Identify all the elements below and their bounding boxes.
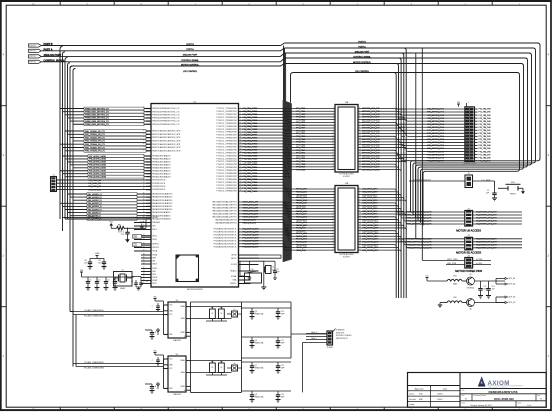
connector MOTOR SD ACCESS	[456, 235, 481, 254]
wires MOTOR SD ACCESS right	[473, 239, 522, 250]
svg-text:LCD_SEG3_DRV: LCD_SEG3_DRV	[362, 197, 378, 199]
svg-text:.1UF: .1UF	[84, 262, 87, 264]
svg-text:90: 90	[143, 182, 145, 184]
capacitors C13 C14 decoupling	[84, 252, 107, 269]
svg-text:PAD13_AN2: PAD13_AN2	[296, 216, 307, 219]
svg-text:MOTOR0_PH0_CTL: MOTOR0_PH0_CTL	[362, 108, 381, 110]
svg-text:LCD_SEG18_DRV: LCD_SEG18_DRV	[362, 239, 379, 241]
svg-text:PT5/IOC1_5/PWM2/KW2: PT5/IOC1_5/PWM2/KW2	[216, 185, 236, 187]
svg-text:20: 20	[332, 160, 334, 162]
capacitor C22	[276, 362, 285, 373]
svg-text:MOTOR2_PH0_CTL: MOTOR2_PH0_CTL	[362, 158, 381, 160]
IC U1 MC9S12 MCU body	[151, 101, 239, 291]
svg-text:11: 11	[359, 135, 361, 137]
wire CAN lattice rails	[191, 302, 328, 392]
wires CAN0 from MCU bus	[70, 305, 168, 334]
wire reset net to SW1	[473, 181, 499, 188]
svg-text:PT5_TIM2: PT5_TIM2	[296, 158, 305, 160]
svg-text:91: 91	[143, 146, 145, 148]
svg-text:C13: C13	[491, 286, 494, 288]
svg-text:LCD_SEG8_DRV: LCD_SEG8_DRV	[362, 211, 378, 213]
svg-text:M_GND: M_GND	[476, 263, 483, 265]
svg-text:23: 23	[143, 270, 145, 272]
svg-text:MOT_A1: MOT_A1	[509, 277, 516, 280]
svg-text:28: 28	[240, 187, 242, 189]
svg-text:PM2_TXCAN2_SPI_CTL: PM2_TXCAN2_SPI_CTL	[85, 136, 105, 139]
svg-text:PORT B: PORT B	[186, 44, 194, 46]
wires U1 right pin group 3	[214, 228, 291, 249]
svg-text:PT1/IOC1_1/PWM6/KW6: PT1/IOC1_1/PWM6/KW6	[216, 149, 236, 151]
svg-text:PB0/ADDR0/DATA0/IO: PB0/ADDR0/DATA0/IO	[152, 175, 171, 178]
svg-text:PS1/RXD1/SCI1: PS1/RXD1/SCI1	[152, 183, 165, 185]
svg-text:11: 11	[240, 137, 242, 139]
svg-text:10: 10	[240, 134, 242, 136]
bus flag ANALOG PORT	[29, 54, 62, 58]
svg-text:21: 21	[143, 263, 145, 265]
capacitor C20	[276, 308, 285, 319]
svg-text:90: 90	[143, 143, 145, 145]
svg-text:LCD_SEG20_DRV: LCD_SEG20_DRV	[362, 244, 379, 246]
svg-text:PM0_TXCAN0_SPI_CTL: PM0_TXCAN0_SPI_CTL	[85, 130, 105, 133]
svg-text:PA1_ADDR9_D: PA1_ADDR9_D	[88, 211, 101, 214]
svg-text:TO_MC33887_PH3_OUT: TO_MC33887_PH3_OUT	[476, 221, 497, 223]
svg-text:TO_MC33887_PH1_OUT: TO_MC33887_PH1_OUT	[476, 215, 497, 217]
svg-text:C12: C12	[483, 286, 486, 288]
svg-text:M_PWR: M_PWR	[476, 259, 483, 261]
svg-text:PAD14_AN14_ATD: PAD14_AN14_ATD	[243, 204, 259, 207]
svg-text:PT2/IOC1_2/PWM5/KW5: PT2/IOC1_2/PWM5/KW5	[216, 123, 236, 125]
svg-text:C3: C3	[107, 280, 109, 282]
svg-text:PAD15/AN15/KWAD15/ETRIG: PAD15/AN15/KWAD15/ETRIG	[212, 201, 237, 204]
svg-text:15: 15	[359, 227, 361, 229]
svg-text:DEMO9S12DWY256: DEMO9S12DWY256	[489, 390, 518, 394]
svg-text:PK1/XADR15/ECS/ROMCTL: PK1/XADR15/ECS/ROMCTL	[214, 231, 237, 234]
wires MOTOR U/I ACCESS left	[396, 210, 465, 226]
svg-text:PT5_TIM2: PT5_TIM2	[296, 136, 305, 138]
svg-text:22: 22	[332, 246, 334, 248]
capacitor C12	[478, 281, 487, 298]
svg-text:PT6/IOC1_6/PWM1/KW1: PT6/IOC1_6/PWM1/KW1	[216, 135, 236, 137]
wires connector left side	[283, 107, 335, 172]
svg-text:PT0_TIM7_PWM3: PT0_TIM7_PWM3	[243, 152, 258, 154]
svg-text:PB1_ADDR1_DATA1: PB1_ADDR1_DATA1	[89, 172, 106, 175]
svg-text:GND_PWR: GND_PWR	[447, 263, 457, 265]
svg-text:PA6_ADDR14_D: PA6_ADDR14_D	[88, 196, 102, 199]
wires J6 feeder from wrap	[396, 109, 405, 155]
svg-text:31: 31	[143, 172, 145, 174]
svg-text:13: 13	[359, 221, 361, 223]
connector J3A body	[335, 101, 358, 178]
transistor Q5	[462, 274, 474, 289]
svg-text:LCD_SEG0_DRV: LCD_SEG0_DRV	[362, 189, 378, 191]
svg-text:PORT IO: PORT IO	[29, 62, 36, 64]
svg-text:22: 22	[332, 165, 334, 167]
bus flag PORT B	[29, 43, 53, 47]
svg-text:XTAL: XTAL	[232, 279, 236, 282]
svg-text:PW7_MOTOR_CTL3: PW7_MOTOR_CTL3	[427, 130, 444, 132]
svg-text:1/30/07: 1/30/07	[437, 399, 443, 401]
svg-text:PWM0_MOTOR0_PH0_HI_CTL: PWM0_MOTOR0_PH0_HI_CTL	[406, 212, 432, 214]
svg-text:PB6/ADDR6/DATA6/IO: PB6/ADDR6/DATA6/IO	[152, 158, 171, 161]
svg-text:LCD_SEG12_DRV: LCD_SEG12_DRV	[362, 222, 379, 224]
svg-text:PA1/ADDR9/DATA9/IO: PA1/ADDR9/DATA9/IO	[152, 211, 171, 214]
svg-text:PT3/IOC1_3/PWM4/KW4: PT3/IOC1_3/PWM4/KW4	[216, 144, 236, 146]
svg-text:J6 MCU PORT: J6 MCU PORT	[463, 163, 476, 165]
svg-text:LCD_SEG2_DRV: LCD_SEG2_DRV	[362, 194, 378, 196]
svg-text:.1UF: .1UF	[486, 192, 489, 194]
svg-text:DOC-0508-000: DOC-0508-000	[494, 397, 514, 401]
svg-text:20: 20	[359, 160, 361, 162]
svg-text:J11: J11	[467, 235, 470, 237]
svg-text:PK2/XADR16/ECS/ROMCTL: PK2/XADR16/ECS/ROMCTL	[214, 234, 237, 237]
svg-text:27: 27	[143, 282, 145, 284]
svg-text:PB4_ADDR4_DATA4: PB4_ADDR4_DATA4	[89, 164, 106, 167]
svg-text:PT7_TIM_CH7: PT7_TIM_CH7	[479, 154, 491, 156]
wires MOTOR U/I ACCESS right	[473, 212, 522, 226]
svg-text:1 of 1: 1 of 1	[527, 405, 532, 407]
svg-text:MOTOR CONTROL: MOTOR CONTROL	[353, 62, 372, 64]
svg-text:LCD_SEG7_DRV: LCD_SEG7_DRV	[362, 208, 378, 210]
svg-text:PAD15_AN0: PAD15_AN0	[296, 232, 307, 235]
svg-text:20: 20	[359, 240, 361, 242]
svg-text:TO_MC33887_PH3_OUT: TO_MC33887_PH3_OUT	[476, 248, 497, 250]
svg-text:19: 19	[240, 160, 242, 162]
svg-text:FB1: FB1	[453, 276, 456, 278]
svg-text:PT1/IOC1_1/PWM6/KW6: PT1/IOC1_1/PWM6/KW6	[216, 126, 236, 128]
svg-text:PW6_MOTOR_CTL2: PW6_MOTOR_CTL2	[427, 151, 444, 153]
svg-text:21: 21	[332, 163, 334, 165]
svg-text:LCD_SEG1_DRV: LCD_SEG1_DRV	[362, 191, 378, 193]
svg-text:PW5_MOTOR_CTL1: PW5_MOTOR_CTL1	[427, 124, 444, 126]
svg-text:VREF: VREF	[181, 386, 185, 388]
svg-text:PAD9_AN6: PAD9_AN6	[296, 227, 306, 230]
svg-text:61: 61	[143, 120, 145, 122]
svg-text:PAD11_AN11_ATD: PAD11_AN11_ATD	[243, 212, 259, 215]
svg-text:17: 17	[332, 152, 334, 154]
transistor Q3	[250, 308, 264, 319]
svg-text:MOTOR3_PH1_CTL: MOTOR3_PH1_CTL	[362, 161, 381, 163]
svg-text:PS2/RXD2/SCI0: PS2/RXD2/SCI0	[152, 186, 165, 188]
svg-text:MOT_A2: MOT_A2	[509, 283, 516, 286]
svg-text:PWM3_MOTOR0_PH3_HI_CTL: PWM3_MOTOR0_PH3_HI_CTL	[406, 221, 432, 223]
svg-text:PAD8_AN7: PAD8_AN7	[296, 207, 306, 210]
svg-text:92: 92	[143, 149, 145, 151]
svg-text:MOTOR1_PH1_CTL: MOTOR1_PH1_CTL	[362, 111, 381, 113]
svg-text:TO_MC33887_PH0_OUT: TO_MC33887_PH0_OUT	[476, 212, 497, 214]
svg-text:PT2/IOC1_2/PWM5/KW5: PT2/IOC1_2/PWM5/KW5	[216, 146, 236, 148]
svg-text:PM4_TXCAN4_SPI_CTL: PM4_TXCAN4_SPI_CTL	[85, 143, 105, 146]
svg-text:MOTOR SD ACCESS: MOTOR SD ACCESS	[456, 251, 481, 255]
svg-text:PORT B: PORT B	[358, 41, 366, 43]
svg-text:PWM0_KWJ1_MOTOR1_CTL: PWM0_KWJ1_MOTOR1_CTL	[85, 111, 109, 113]
svg-text:CONTROL SIGNAL: CONTROL SIGNAL	[181, 59, 199, 62]
svg-text:PT1_TIM6: PT1_TIM6	[296, 169, 305, 171]
svg-text:PA7/ADDR15/DATA15/IO: PA7/ADDR15/DATA15/IO	[152, 193, 173, 196]
wire bus PORT A	[41, 45, 535, 214]
svg-text:PT0/IOC1_0/PWM7/KW7: PT0/IOC1_0/PWM7/KW7	[216, 152, 236, 154]
svg-text:RXCAN0_TRANSLATED: RXCAN0_TRANSLATED	[84, 315, 105, 318]
svg-text:VDDA: VDDA	[152, 250, 158, 253]
svg-text:PT4/IOC1_4/PWM3/KW3: PT4/IOC1_4/PWM3/KW3	[216, 188, 236, 190]
svg-text:89: 89	[143, 179, 145, 181]
svg-text:PAD14_AN1: PAD14_AN1	[296, 213, 307, 216]
svg-text:PT1_TIM6_PWM2: PT1_TIM6_PWM2	[243, 149, 258, 151]
connector J1	[51, 175, 57, 192]
power VDD rail bottom left	[80, 270, 134, 277]
svg-text:PT5/IOC1_5/PWM2/KW2: PT5/IOC1_5/PWM2/KW2	[216, 161, 236, 163]
resistor R11 box	[240, 261, 262, 283]
svg-text:PT0/IOC1_0/PWM7/KW7: PT0/IOC1_0/PWM7/KW7	[216, 176, 236, 178]
svg-text:VSSPLL: VSSPLL	[230, 283, 237, 285]
svg-text:PM2/TXCAN2/RXCAN2/SCK_SPI2: PM2/TXCAN2/RXCAN2/SCK_SPI2	[152, 136, 180, 139]
svg-text:29: 29	[240, 190, 242, 192]
svg-text:J10: J10	[467, 208, 470, 210]
svg-text:11: 11	[143, 225, 145, 227]
switch SW1 reset button	[498, 182, 525, 196]
parts below U3	[145, 382, 159, 393]
svg-text:MOT_B2: MOT_B2	[509, 302, 516, 304]
wires U1 bottom right RC cluster	[240, 255, 281, 277]
svg-text:23: 23	[359, 249, 361, 251]
svg-text:56PF: 56PF	[281, 396, 285, 398]
svg-text:PT7_TIM0_PWM0: PT7_TIM0_PWM0	[243, 132, 258, 134]
transistor Q7	[250, 362, 264, 373]
svg-text:EXTAL: EXTAL	[231, 275, 237, 278]
svg-text:PT4_TIM3: PT4_TIM3	[296, 117, 305, 119]
svg-text:PT2/IOC1_2/PWM5/KW5: PT2/IOC1_2/PWM5/KW5	[216, 170, 236, 172]
svg-text:MOTOR0_PH0_CTL: MOTOR0_PH0_CTL	[362, 142, 381, 144]
svg-text:89: 89	[143, 140, 145, 142]
svg-text:19: 19	[332, 238, 334, 240]
svg-text:PT4_TIM3_PWM3: PT4_TIM3_PWM3	[243, 164, 258, 166]
svg-text:ANALOG PORT: ANALOG PORT	[183, 54, 198, 57]
svg-text:13: 13	[332, 140, 334, 142]
svg-text:VDDR: VDDR	[152, 277, 158, 279]
svg-text:PWM2_MOTOR0_PH2_HI_CTL: PWM2_MOTOR0_PH2_HI_CTL	[406, 218, 432, 220]
ground cluster Y1	[261, 287, 266, 290]
svg-text:J9: J9	[468, 173, 470, 175]
svg-text:LCD CONTROL: LCD CONTROL	[355, 71, 370, 73]
wires U1 right pin group 2	[212, 201, 290, 225]
wires U1 left pin group 2	[60, 130, 180, 153]
svg-text:LCD_SEG6_DRV: LCD_SEG6_DRV	[362, 205, 378, 207]
svg-text:18: 18	[240, 157, 242, 159]
svg-text:PM3_TXCAN3_SPI_CTL: PM3_TXCAN3_SPI_CTL	[85, 140, 105, 143]
svg-text:J3A: J3A	[345, 101, 349, 104]
svg-text:PA3/ADDR11/DATA11/IO: PA3/ADDR11/DATA11/IO	[152, 205, 173, 208]
svg-text:Approvals: Approvals	[415, 387, 424, 390]
resistor network CAN0	[191, 307, 242, 321]
svg-text:PM3/TXCAN3/RXCAN3/SCK_SPI0: PM3/TXCAN3/RXCAN3/SCK_SPI0	[152, 140, 180, 143]
svg-text:MOTOR CONTROL: MOTOR CONTROL	[181, 64, 200, 66]
svg-text:15: 15	[332, 227, 334, 229]
svg-text:88: 88	[143, 136, 145, 138]
svg-text:C1: C1	[89, 280, 91, 282]
svg-text:12: 12	[332, 138, 334, 140]
svg-text:PT6_TIM_CH6: PT6_TIM_CH6	[479, 127, 491, 129]
svg-text:PWM2_MOTOR1_PH2_HI_CTL: PWM2_MOTOR1_PH2_HI_CTL	[406, 245, 432, 247]
svg-text:PT1_TIM_CH1: PT1_TIM_CH1	[479, 136, 491, 138]
svg-text:PA6/ADDR14/DATA14/IO: PA6/ADDR14/DATA14/IO	[152, 196, 173, 199]
decoupling caps C1 C2 C6 C7 on rail	[86, 277, 119, 290]
svg-text:21: 21	[240, 166, 242, 168]
svg-text:PAD12_AN12_ATD: PAD12_AN12_ATD	[243, 210, 259, 213]
svg-text:PT7_TIM_CH7: PT7_TIM_CH7	[479, 130, 491, 132]
svg-text:Q4: Q4	[255, 340, 257, 342]
svg-text:MOTOR2_PH0_CTL: MOTOR2_PH0_CTL	[362, 125, 381, 127]
svg-text:PB3_ADDR3_DATA3: PB3_ADDR3_DATA3	[89, 167, 106, 170]
svg-text:PS3/RXD3/SCI1: PS3/RXD3/SCI1	[152, 189, 165, 191]
svg-text:CONTROL SIGNAL: CONTROL SIGNAL	[353, 55, 371, 58]
svg-text:C3: C3	[131, 281, 133, 283]
svg-text:X1: X1	[121, 269, 123, 271]
svg-text:TO_MC33887_PH1_OUT: TO_MC33887_PH1_OUT	[476, 242, 497, 244]
capacitor C13	[486, 281, 495, 298]
wire bus drops from top to band	[284, 46, 291, 103]
svg-text:PWM0_KWJ0_MOTOR0_CTL: PWM0_KWJ0_MOTOR0_CTL	[85, 108, 109, 110]
svg-text:PT2_TIM5: PT2_TIM5	[296, 167, 305, 169]
svg-text:12: 12	[359, 218, 361, 220]
wires U1 right pin group 1	[216, 107, 290, 193]
svg-text:PAD10_AN5: PAD10_AN5	[296, 246, 307, 249]
svg-text:VSSR: VSSR	[152, 280, 158, 282]
svg-text:PS3_RXD3_SCI: PS3_RXD3_SCI	[88, 189, 102, 191]
svg-text:15: 15	[359, 146, 361, 148]
svg-text:11: 11	[333, 215, 335, 217]
svg-text:PT1_TIM_CH1: PT1_TIM_CH1	[479, 160, 491, 162]
wire bus ANALOG PORT	[41, 50, 531, 217]
svg-text:PT3/IOC1_3/PWM4/KW4: PT3/IOC1_3/PWM4/KW4	[216, 120, 236, 122]
svg-text:86: 86	[143, 130, 145, 132]
svg-text:PW3/KWJ3/PWM3/MOTOR3_CTL: PW3/KWJ3/PWM3/MOTOR3_CTL	[152, 118, 180, 120]
svg-text:PAD11_AN4: PAD11_AN4	[296, 243, 308, 246]
logo AXIOM	[478, 376, 523, 389]
svg-text:16: 16	[359, 149, 361, 151]
svg-text:25: 25	[143, 155, 145, 157]
svg-text:C22: C22	[281, 365, 284, 367]
svg-text:PA3_ADDR11_D: PA3_ADDR11_D	[88, 205, 102, 208]
svg-text:17: 17	[240, 154, 242, 156]
svg-text:LCD_SEG4_DRV: LCD_SEG4_DRV	[362, 200, 378, 202]
svg-text:C2: C2	[98, 280, 100, 282]
svg-text:46: 46	[143, 193, 145, 195]
svg-text:PAD9/AN9/KWAD9/ETRIG: PAD9/AN9/KWAD9/ETRIG	[215, 218, 237, 221]
svg-text:PT1_TIM6: PT1_TIM6	[296, 125, 305, 127]
svg-text:J12: J12	[467, 255, 470, 257]
svg-text:10: 10	[359, 213, 361, 215]
svg-text:1K: 1K	[211, 313, 213, 315]
connector J8 CAN port	[242, 329, 353, 393]
svg-text:18: 18	[332, 235, 334, 237]
svg-text:PT0_TIM_CH0: PT0_TIM_CH0	[479, 133, 491, 135]
inductor FB1	[447, 276, 462, 286]
svg-text:PAD10_AN5: PAD10_AN5	[296, 202, 307, 205]
svg-text:1K: 1K	[220, 313, 222, 315]
svg-text:PW0_MOTOR_CTL0: PW0_MOTOR_CTL0	[427, 109, 444, 111]
svg-text:1K: 1K	[211, 367, 213, 369]
svg-text:PW2/KWJ2/PWM2/MOTOR2_CTL: PW2/KWJ2/PWM2/MOTOR2_CTL	[152, 114, 180, 116]
svg-text:22: 22	[240, 169, 242, 171]
svg-text:VDDX: VDDX	[152, 264, 158, 266]
capacitor C23	[276, 391, 285, 402]
svg-text:PT2_TIM_CH2: PT2_TIM_CH2	[479, 115, 491, 117]
title block	[408, 373, 547, 408]
svg-text:14: 14	[240, 145, 242, 147]
svg-text:PS1_RXD1_SCI: PS1_RXD1_SCI	[88, 183, 102, 185]
svg-text:PB2_ADDR2_DATA2: PB2_ADDR2_DATA2	[89, 170, 106, 173]
svg-text:Q7: Q7	[255, 365, 257, 367]
svg-text:PT1_TIM6_PWM2: PT1_TIM6_PWM2	[243, 173, 258, 175]
svg-text:TO_MC33887_PH4_OUT: TO_MC33887_PH4_OUT	[476, 224, 497, 226]
capacitors C16 C17	[248, 261, 280, 279]
svg-text:MOTOR3_PH1_CTL: MOTOR3_PH1_CTL	[362, 128, 381, 130]
svg-text:16: 16	[143, 246, 145, 248]
svg-text:TXCAN4_TRANSLATED: TXCAN4_TRANSLATED	[84, 361, 105, 364]
svg-text:PT4_TIM3: PT4_TIM3	[296, 139, 305, 141]
svg-text:PK1_XADR15_EXP: PK1_XADR15_EXP	[243, 231, 260, 234]
svg-text:SOCKET: SOCKET	[343, 256, 350, 258]
svg-text:VDD1: VDD1	[133, 235, 137, 237]
svg-text:10: 10	[332, 132, 334, 134]
capacitor C9	[486, 188, 497, 201]
wires U1 left pin group 4 from J1	[57, 179, 166, 192]
svg-text:MODC: MODC	[231, 258, 237, 260]
svg-text:22: 22	[359, 246, 361, 248]
svg-text:10: 10	[332, 213, 334, 215]
svg-text:LCD_SEG16_DRV: LCD_SEG16_DRV	[362, 233, 379, 235]
caps C3 C4 osc	[131, 280, 148, 290]
svg-text:17: 17	[332, 232, 334, 234]
svg-text:PK0_XADR14_EXP: PK0_XADR14_EXP	[243, 228, 260, 231]
svg-text:12: 12	[332, 218, 334, 220]
svg-text:50: 50	[143, 205, 145, 207]
svg-text:PORT A: PORT A	[358, 45, 366, 48]
svg-text:PT3_TIM4_PWM0: PT3_TIM4_PWM0	[243, 120, 258, 122]
svg-text:VDD2: VDD2	[152, 236, 157, 238]
svg-text:PT3/IOC1_3/PWM4/KW4: PT3/IOC1_3/PWM4/KW4	[216, 167, 236, 169]
svg-text:NOACC: NOACC	[230, 270, 237, 273]
connector MOTOR U/I ACCESS	[456, 208, 481, 232]
wire bus MOTOR CONTROL	[70, 62, 524, 223]
oscillator circuit X1	[114, 269, 142, 290]
svg-text:PT4_TIM3: PT4_TIM3	[296, 161, 305, 163]
svg-text:PAD8_AN7: PAD8_AN7	[296, 229, 306, 232]
svg-text:LCD_SEG14_DRV: LCD_SEG14_DRV	[362, 228, 379, 230]
svg-text:PK4/XADR18/ECS/ROMCTL: PK4/XADR18/ECS/ROMCTL	[214, 239, 237, 242]
svg-text:VSSX: VSSX	[152, 268, 158, 270]
svg-text:15: 15	[332, 146, 334, 148]
svg-text:PW6_MOTOR_CTL2: PW6_MOTOR_CTL2	[427, 127, 444, 129]
svg-text:PW0/KWJ0/PWM0/MOTOR0_CTL: PW0/KWJ0/PWM0/MOTOR0_CTL	[152, 108, 180, 110]
svg-text:19: 19	[359, 157, 361, 159]
svg-text:16MHZ: 16MHZ	[120, 288, 125, 290]
svg-text:PAD10/AN10/KWAD10/ETRIG: PAD10/AN10/KWAD10/ETRIG	[212, 215, 237, 218]
svg-text:MOTOR2_PH0_CTL: MOTOR2_PH0_CTL	[362, 114, 381, 116]
svg-text:MOTOR3_PH1_CTL: MOTOR3_PH1_CTL	[362, 150, 381, 152]
svg-text:PORT A: PORT A	[186, 48, 194, 51]
svg-text:MOTOR3_PH1_CTL: MOTOR3_PH1_CTL	[362, 117, 381, 119]
svg-text:24: 24	[143, 273, 145, 275]
svg-text:LCD_SEG5_DRV: LCD_SEG5_DRV	[362, 203, 378, 205]
svg-text:TJA1050T: TJA1050T	[173, 393, 183, 396]
svg-text:PB6_ADDR6_DATA6: PB6_ADDR6_DATA6	[89, 158, 106, 161]
svg-text:23: 23	[359, 168, 361, 170]
wire vertical bus band center	[283, 100, 291, 262]
svg-text:PAD12/AN12/KWAD12/ETRIG: PAD12/AN12/KWAD12/ETRIG	[212, 209, 237, 212]
svg-text:VDD1: VDD1	[152, 229, 157, 231]
svg-text:PAD12_AN3: PAD12_AN3	[296, 196, 307, 199]
svg-text:VSS1: VSS1	[152, 239, 157, 241]
